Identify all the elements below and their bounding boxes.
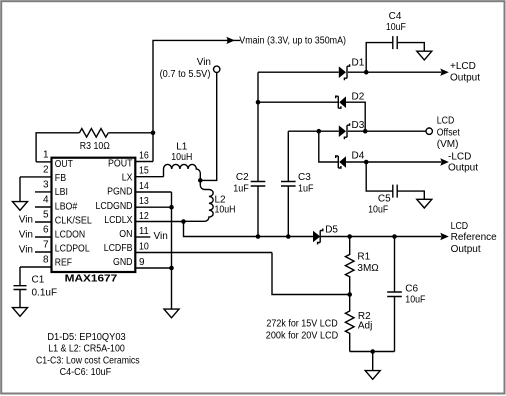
svg-text:C4-C6: 10uF: C4-C6: 10uF (60, 367, 112, 378)
svg-text:7: 7 (43, 240, 49, 251)
svg-text:10uF: 10uF (386, 22, 406, 33)
svg-text:6: 6 (43, 225, 49, 236)
svg-text:C6: C6 (405, 283, 418, 294)
svg-text:LX: LX (122, 173, 133, 184)
svg-text:Output: Output (451, 244, 481, 255)
node D1/C4 junction (364, 70, 369, 75)
capacitor C6 (394, 237, 396, 352)
node GND junction (169, 266, 174, 271)
node LCDLX/L2 junction (181, 219, 186, 224)
svg-text:LCDPOL: LCDPOL (55, 244, 90, 255)
svg-text:Reference: Reference (451, 232, 498, 243)
wire C1 to ground (19, 290, 21, 308)
svg-text:Output: Output (450, 72, 480, 83)
svg-text:LCDFB: LCDFB (104, 243, 133, 254)
wire R3 to junction (108, 132, 153, 134)
svg-text:L1 & L2: CR5A-100: L1 & L2: CR5A-100 (48, 344, 125, 355)
pin 8 stub (20, 266, 52, 268)
wire PGND/LCDGND/GND vertical to ground (171, 192, 173, 309)
wire pin8 to C1 (19, 267, 21, 286)
pin 14 stub (135, 191, 171, 193)
svg-text:8: 8 (43, 255, 49, 266)
svg-text:Vin: Vin (19, 215, 33, 226)
svg-text:LBO#: LBO# (55, 201, 78, 212)
diode D4 (339, 156, 346, 168)
-LCD Output arrow (440, 158, 449, 165)
svg-text:LCDGND: LCDGND (96, 201, 133, 212)
ground below IC (164, 309, 179, 318)
ground C5 (417, 199, 432, 208)
svg-text:D4: D4 (352, 151, 365, 162)
svg-text:1uF: 1uF (233, 184, 249, 195)
node D3/D4 branch junction (317, 129, 322, 134)
node R1/R2/LCDFB junction (347, 292, 352, 297)
node L1/L2/Vin junction (198, 178, 203, 183)
wire C5 branch (366, 162, 424, 199)
svg-text:MAX1677: MAX1677 (65, 274, 118, 285)
diode D5 (313, 231, 320, 243)
resistor R1 (345, 237, 354, 295)
svg-text:POUT: POUT (108, 159, 133, 170)
Vmain arrow (226, 37, 235, 44)
svg-text:10uF: 10uF (405, 294, 425, 305)
ground C4 (417, 51, 432, 60)
capacitor C4 (393, 36, 397, 49)
capacitor C3 (287, 131, 289, 236)
pin 3 stub (35, 191, 52, 193)
capacitor C2 (257, 72, 259, 236)
wire D3 row (288, 130, 425, 132)
+LCD Output arrow (440, 69, 449, 76)
svg-text:272k for 15V LCD: 272k for 15V LCD (266, 318, 337, 329)
pin 9 stub (135, 267, 171, 269)
node LCD Offset terminal circle (426, 128, 432, 134)
svg-text:11: 11 (139, 226, 149, 237)
svg-text:LBI: LBI (55, 187, 68, 198)
pin 13 stub (135, 206, 171, 208)
svg-text:+LCD: +LCD (450, 61, 476, 72)
svg-text:LCD: LCD (437, 115, 455, 126)
svg-text:Offset: Offset (437, 127, 460, 138)
diode D3 (339, 125, 346, 137)
wire D4 row (346, 161, 441, 163)
svg-text:OUT: OUT (55, 159, 73, 170)
wire D2 row (258, 102, 365, 131)
svg-text:FB: FB (55, 173, 67, 184)
wire LCDLX branch down and D5 row (184, 222, 314, 237)
svg-text:LCDLX: LCDLX (104, 215, 133, 226)
wire Vin circle down to L1 junction (200, 73, 216, 180)
capacitor C1 (14, 286, 27, 290)
svg-text:Vin: Vin (19, 245, 33, 256)
wire bottom R2/C6 (350, 351, 395, 353)
node R3/POUT junction (151, 131, 156, 136)
inductor L1 (164, 164, 201, 180)
wire LCDFB feedback (272, 253, 350, 295)
svg-text:10uF: 10uF (368, 204, 388, 215)
svg-text:5: 5 (43, 210, 49, 221)
node D3/D2 junction (363, 129, 368, 134)
pin 4 stub (35, 206, 52, 208)
svg-text:C4: C4 (389, 11, 402, 22)
svg-text:0.1uF: 0.1uF (32, 288, 58, 299)
wire to bottom ground (372, 352, 374, 371)
svg-text:L1: L1 (176, 141, 188, 152)
pin 7 stub (35, 251, 52, 253)
pin 11 stub (135, 236, 150, 238)
pin 16 stub (135, 161, 153, 163)
svg-text:C2: C2 (236, 172, 249, 183)
svg-text:D1-D5: EP10QY03: D1-D5: EP10QY03 (47, 332, 126, 343)
ground FB (13, 202, 28, 211)
svg-text:10uH: 10uH (171, 152, 192, 163)
node LCDGND junction (169, 205, 174, 210)
svg-text:15: 15 (139, 166, 149, 177)
svg-text:2: 2 (43, 164, 49, 175)
wire D1 row (258, 71, 441, 73)
svg-text:4: 4 (43, 195, 49, 206)
svg-text:R1: R1 (357, 252, 370, 263)
svg-text:D3: D3 (352, 120, 365, 131)
svg-text:D1: D1 (352, 58, 365, 69)
svg-text:Output: Output (448, 162, 478, 173)
svg-text:1: 1 (43, 149, 49, 160)
node D4/C5 junction (364, 160, 369, 165)
svg-text:GND: GND (113, 257, 133, 268)
wire pin1 up to R3 (36, 133, 79, 162)
wire pin2 to ground (19, 177, 21, 202)
ground C1 (13, 308, 28, 317)
node bottom ground junction (370, 349, 375, 354)
node C2/D2 junction (256, 100, 261, 105)
svg-text:3: 3 (43, 179, 49, 190)
svg-text:C1: C1 (32, 275, 45, 286)
pin 15 stub (135, 176, 163, 178)
wire D3/D4 branch (319, 131, 339, 162)
svg-text:-LCD: -LCD (448, 151, 471, 162)
svg-text:14: 14 (139, 181, 149, 192)
svg-text:C1-C3: Low cost Ceramics: C1-C3: Low cost Ceramics (36, 355, 140, 366)
IC U1 MAX1677 body (52, 158, 136, 272)
node D5/R1 junction (347, 234, 352, 239)
svg-text:C3: C3 (298, 172, 311, 183)
svg-text:16: 16 (139, 151, 149, 162)
capacitor C5 (393, 185, 397, 198)
svg-text:Vin: Vin (19, 230, 33, 241)
wire C4 branch (366, 43, 424, 73)
svg-text:D5: D5 (325, 224, 338, 235)
svg-text:10uH: 10uH (215, 205, 236, 216)
pin 12 stub (135, 221, 183, 223)
svg-text:1uF: 1uF (298, 184, 314, 195)
svg-text:10: 10 (139, 242, 149, 253)
inductor L2 (184, 180, 214, 221)
node D5/C6 junction (392, 234, 397, 239)
node Vin terminal circle (214, 66, 220, 72)
svg-text:C5: C5 (378, 194, 391, 205)
wire D5 cathode to LCD Reference arrow (321, 236, 441, 238)
svg-text:LCD: LCD (451, 221, 469, 232)
svg-text:Vin: Vin (197, 57, 211, 68)
wire junction to pin16 and up to Vmain (153, 40, 240, 161)
svg-text:Vmain (3.3V, up to 350mA): Vmain (3.3V, up to 350mA) (239, 35, 346, 46)
pin 2 stub (20, 176, 52, 178)
svg-text:13: 13 (139, 196, 149, 207)
svg-text:CLK/SEL: CLK/SEL (55, 215, 92, 226)
svg-text:D2: D2 (352, 92, 365, 103)
pin 6 stub (35, 236, 52, 238)
svg-text:200k for 20V LCD: 200k for 20V LCD (266, 330, 338, 341)
svg-text:REF: REF (55, 258, 72, 269)
svg-text:LCDON: LCDON (55, 230, 85, 241)
node C2/D5-row junction (256, 234, 261, 239)
svg-text:12: 12 (139, 211, 149, 222)
svg-text:3MΩ: 3MΩ (357, 263, 379, 274)
svg-text:PGND: PGND (107, 187, 132, 198)
svg-text:R3 10Ω: R3 10Ω (80, 141, 110, 152)
resistor R2 (345, 295, 354, 352)
pin 10 stub (135, 252, 272, 254)
svg-text:(0.7 to 5.5V): (0.7 to 5.5V) (160, 69, 211, 80)
svg-text:Vin: Vin (154, 231, 168, 242)
pin 1 stub (36, 161, 51, 163)
resistor R3 (79, 129, 108, 138)
diode D1 (339, 66, 346, 78)
svg-text:ON: ON (119, 229, 132, 240)
node C3/D5-row junction (286, 234, 291, 239)
pin 5 stub (35, 221, 52, 223)
svg-text:Adj: Adj (358, 320, 372, 331)
LCD Reference Output arrow (440, 233, 449, 240)
diode D2 (339, 96, 346, 108)
svg-text:9: 9 (139, 257, 145, 268)
svg-text:(VM): (VM) (437, 139, 459, 150)
ground bottom (365, 371, 380, 380)
